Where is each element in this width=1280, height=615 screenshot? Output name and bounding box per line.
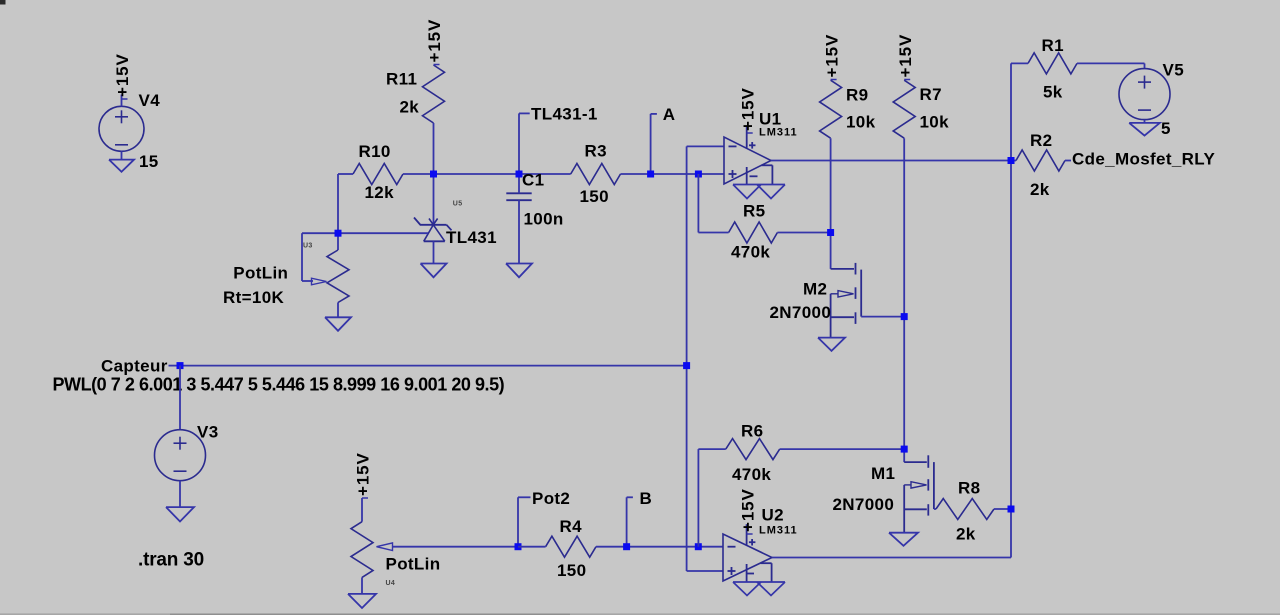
wire R6 right lead (780, 448, 905, 450)
ground (U2) (733, 581, 785, 583)
svg-text:U4: U4 (386, 580, 396, 587)
ground (V3) (166, 507, 194, 521)
resistor R1 (1028, 53, 1077, 74)
svg-text:2N7000: 2N7000 (833, 495, 895, 514)
wire U2 output (772, 557, 1011, 559)
svg-text:5k: 5k (1043, 83, 1063, 102)
node junction M2/R7 (901, 313, 908, 320)
svg-text:PotLin: PotLin (386, 555, 441, 574)
node junction pot U3 top (335, 230, 342, 237)
voltage source V5 (1119, 69, 1170, 120)
ground (pot U4) (348, 594, 376, 608)
svg-text:+15V: +15V (354, 452, 373, 496)
svg-text:R5: R5 (743, 202, 765, 221)
resistor R4 (546, 536, 596, 557)
wire Capteur net (180, 365, 687, 367)
node junction R6/M1 drain (901, 446, 908, 453)
wire right bus vertical (1010, 63, 1012, 557)
svg-text:B: B (640, 489, 653, 508)
net flag B (626, 497, 628, 546)
svg-text:C1: C1 (522, 171, 544, 190)
svg-text:Pot2: Pot2 (532, 489, 570, 508)
node junction Capteur/V3 (177, 362, 184, 369)
op-amp U1 LM311 (724, 137, 771, 184)
wire V5 bottom (1144, 120, 1146, 123)
svg-text:150: 150 (557, 561, 586, 580)
svg-text:150: 150 (580, 187, 609, 206)
resistor R6 (726, 439, 780, 460)
svg-text:100n: 100n (524, 210, 564, 229)
node junction R5/R9/M2 (827, 229, 834, 236)
node junction U1 + column (695, 171, 702, 178)
svg-text:+15V: +15V (113, 53, 132, 97)
wire R10 right lead to node (403, 173, 434, 175)
svg-text:+15V: +15V (738, 87, 757, 131)
svg-text:R10: R10 (359, 142, 391, 161)
wire R1 left lead (1011, 62, 1028, 64)
wire C1 bottom to ground (518, 200, 520, 263)
svg-text:2k: 2k (400, 98, 420, 117)
wire R10 left down to pot node (337, 174, 339, 250)
wire TL431 ref pin (338, 232, 428, 234)
node junction U1 out / R2 (1008, 157, 1015, 164)
svg-text:2N7000: 2N7000 (770, 303, 832, 322)
node junction R11/R10 (430, 171, 437, 178)
wire Capteur column (U1 - to U2 +) (686, 146, 688, 571)
node junction B (623, 543, 630, 550)
wire R5 left lead to U1 + node (697, 174, 699, 233)
wire pot U4 bottom (361, 577, 363, 594)
wire R7 bottom to M1 drain (903, 138, 905, 462)
wire TL431 anode to ground (433, 241, 435, 263)
node junction U2 - column (695, 543, 702, 550)
wire R3 to U1 + input (621, 173, 725, 175)
svg-text:470k: 470k (731, 243, 770, 262)
resistor R2 (1016, 150, 1065, 171)
wiper arrow (U3) (312, 278, 327, 285)
wire R5 right lead (777, 232, 830, 234)
svg-text:V5: V5 (1163, 61, 1185, 80)
node junction Capteur column (683, 362, 690, 369)
svg-text:LM311: LM311 (759, 525, 798, 537)
wiper wire (U4) (393, 546, 519, 548)
svg-text:5: 5 (1161, 119, 1171, 138)
svg-text:2k: 2k (956, 525, 976, 544)
ground (pot U3) (325, 317, 351, 331)
svg-text:+15V: +15V (822, 34, 841, 78)
svg-text:10k: 10k (920, 113, 950, 132)
resistor R5 (729, 222, 778, 243)
wire M2 gate to R7 column (861, 316, 904, 318)
svg-text:+15V: +15V (738, 488, 757, 532)
resistor R7 (893, 80, 915, 138)
ground (V5) (1129, 123, 1160, 136)
wire V3 bottom (179, 481, 181, 507)
wire U1 output (771, 160, 1011, 162)
svg-text:R2: R2 (1030, 131, 1052, 150)
node junction Pot2 (515, 543, 522, 550)
svg-text:LM311: LM311 (759, 127, 798, 139)
svg-text:+15V: +15V (896, 34, 915, 78)
wire pot U3 to ground (337, 303, 339, 318)
resistor R3 (571, 164, 621, 185)
svg-text:10k: 10k (846, 113, 876, 132)
svg-text:Cde_Mosfet_RLY: Cde_Mosfet_RLY (1072, 150, 1215, 169)
node junction R8/right bus (1008, 506, 1015, 513)
resistor R9 (820, 80, 842, 138)
wire R10 left lead (338, 173, 353, 175)
wire U2 + input (687, 570, 723, 572)
resistor R11 (423, 65, 445, 123)
potentiometer U4 PotLin (351, 522, 373, 578)
svg-text:M2: M2 (803, 280, 827, 299)
svg-text:2k: 2k (1030, 180, 1050, 199)
wire R9 bottom to M2 drain (830, 138, 832, 269)
wire M1 gate to R8 (934, 508, 936, 510)
svg-text:V4: V4 (139, 91, 161, 110)
svg-text:U3: U3 (303, 243, 313, 250)
svg-text:15: 15 (139, 152, 159, 171)
wire R8 right lead (994, 508, 1011, 510)
svg-text:V3: V3 (197, 423, 219, 442)
ground (TL431) (421, 264, 447, 278)
svg-text:R9: R9 (846, 86, 868, 105)
wire R2 left lead (1011, 160, 1016, 162)
op-amp U2 LM311 (723, 534, 772, 581)
svg-text:R11: R11 (386, 69, 417, 88)
ground (U1) (733, 184, 785, 186)
svg-text:+15V: +15V (425, 19, 444, 63)
ground (C1) (506, 264, 532, 278)
node junction A (647, 171, 654, 178)
node junction C1 top (516, 171, 523, 178)
svg-text:R6: R6 (741, 422, 763, 441)
wire R2 right lead hook (1065, 160, 1071, 162)
ground (M1) (889, 533, 918, 546)
svg-text:Capteur: Capteur (101, 356, 168, 375)
resistor R8 (936, 499, 994, 520)
svg-text:R1: R1 (1042, 36, 1064, 55)
svg-text:A: A (663, 105, 676, 124)
svg-text:R3: R3 (585, 142, 607, 161)
svg-text:PotLin: PotLin (233, 263, 288, 282)
TL431 U5 (shunt regulator) (420, 224, 447, 226)
svg-text:12k: 12k (365, 183, 395, 202)
wire R11 bottom to junction and TL431 cathode (433, 123, 435, 225)
wire V3 top (179, 366, 181, 430)
transistor M2 2N7000 (855, 263, 857, 275)
ground (M2) (818, 338, 845, 351)
potentiometer U3 PotLin (327, 250, 349, 303)
wiper arrow (U4) (377, 543, 393, 551)
resistor R10 (353, 164, 403, 185)
wire C1 top / net TL431-1 riser (518, 113, 520, 193)
svg-text:R4: R4 (560, 517, 583, 536)
net flag A (650, 114, 652, 174)
capacitor C1 (506, 192, 531, 194)
transistor M1 2N7000 (927, 455, 929, 468)
svg-text:470k: 470k (732, 465, 771, 484)
wire R6 left lead down to U2 - node (697, 449, 699, 547)
svg-text:R7: R7 (920, 85, 942, 104)
svg-text:TL431: TL431 (446, 228, 497, 247)
svg-text:.tran 30: .tran 30 (138, 550, 204, 571)
svg-text:U5: U5 (453, 201, 463, 208)
wiper wire (U3) (302, 232, 338, 234)
wire R4 leads (518, 546, 546, 548)
svg-text:Rt=10K: Rt=10K (223, 288, 285, 307)
net flag Pot2 (517, 497, 519, 546)
svg-text:PWL(0 7 2 6.001 3 5.447 5 5.44: PWL(0 7 2 6.001 3 5.447 5 5.446 15 8.999… (53, 375, 505, 395)
svg-text:R8: R8 (958, 479, 980, 498)
svg-text:TL431-1: TL431-1 (531, 105, 598, 124)
svg-text:M1: M1 (871, 464, 895, 483)
wire pot U4 top (361, 498, 363, 522)
voltage source V4 (99, 106, 144, 151)
wire U1 - input (687, 145, 724, 147)
voltage source V3 (155, 430, 206, 481)
svg-text:U2: U2 (762, 506, 784, 525)
ground (V4) (109, 160, 134, 172)
wire R1 right lead to V5 (1077, 62, 1145, 64)
wire node to C1 node (434, 173, 571, 175)
